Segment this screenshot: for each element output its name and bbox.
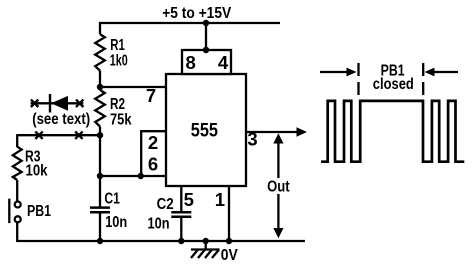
resistor R1 (95, 34, 105, 70)
wire R2 to node (99, 127, 101, 177)
node junction link/R2 line (97, 132, 103, 138)
svg-text:6: 6 (148, 154, 158, 175)
svg-text:3: 3 (247, 129, 257, 150)
wire PB1 to bottom rail (16, 222, 18, 242)
svg-text:PB1: PB1 (27, 203, 51, 220)
node junction C2 bottom rail (178, 238, 184, 244)
svg-text:C1: C1 (104, 191, 120, 208)
dashed marker right (422, 63, 424, 97)
svg-text:Out: Out (267, 179, 290, 196)
svg-text:2: 2 (148, 132, 158, 153)
capacitor C1 (90, 176, 110, 241)
cut mark X right on link (75, 132, 82, 139)
node junction at notch corner (138, 173, 144, 179)
diode D1 (see text) (31, 94, 84, 113)
wire R3 to PB1 (16, 180, 18, 202)
node junction R2/C1/pins2-6 (97, 173, 103, 179)
svg-text:10n: 10n (148, 216, 170, 233)
svg-text:+5 to +15V: +5 to +15V (162, 5, 231, 22)
pushbutton PB1 (9, 199, 20, 223)
node junction R1/R2/pin7 (97, 84, 103, 90)
wire to pins 2 and 6 (100, 175, 166, 177)
arrow Out measurement (264, 133, 293, 238)
cut mark X left of diode (31, 100, 38, 107)
wire down to R3 (16, 134, 18, 147)
arrow right PB1-closed marker (425, 68, 459, 77)
svg-text:(see text): (see text) (32, 111, 90, 128)
resistor R3 (13, 147, 22, 180)
svg-text:0V: 0V (221, 247, 238, 264)
dashed marker left (357, 63, 359, 97)
node junction C1 bottom rail (97, 238, 103, 244)
node junction pin1 bottom rail (226, 238, 232, 244)
arrow left PB1-closed marker (320, 68, 357, 77)
wire rail to pin8/4 box (205, 23, 207, 50)
svg-text:75k: 75k (110, 111, 132, 128)
notch box pins 2/6 (141, 131, 166, 176)
svg-text:closed: closed (373, 76, 414, 93)
resistor R2 (95, 90, 105, 127)
svg-text:5: 5 (184, 189, 194, 210)
cut mark X left on link (35, 132, 42, 139)
pin box 8/4 (182, 50, 231, 74)
wire pin 3 output with arrow (246, 127, 307, 136)
capacitor C2 (171, 186, 191, 241)
waveform output (321, 101, 464, 162)
svg-text:1: 1 (215, 189, 225, 210)
svg-text:C2: C2 (157, 196, 174, 213)
wire link line with cut marks (17, 134, 100, 136)
svg-text:1k0: 1k0 (110, 52, 128, 69)
node junction on rail (203, 20, 209, 26)
op IC U1 555 body (166, 74, 246, 186)
node junction on pin box top (203, 47, 209, 53)
node dot repeated on box top (203, 47, 209, 53)
svg-text:8: 8 (186, 52, 196, 73)
svg-text:10k: 10k (26, 163, 48, 180)
wire left branch down from rail (99, 22, 101, 34)
svg-text:555: 555 (191, 121, 219, 142)
wire pin 1 (228, 186, 230, 241)
wire R1 to node (99, 71, 101, 90)
cut mark X right of diode (76, 100, 83, 107)
svg-text:10n: 10n (105, 214, 127, 231)
wire bottom rail (17, 240, 305, 242)
svg-text:4: 4 (218, 52, 229, 73)
svg-text:7: 7 (146, 85, 156, 106)
wire pin 7 (100, 86, 166, 88)
wire top supply rail (99, 22, 280, 24)
ground symbol (191, 238, 220, 258)
